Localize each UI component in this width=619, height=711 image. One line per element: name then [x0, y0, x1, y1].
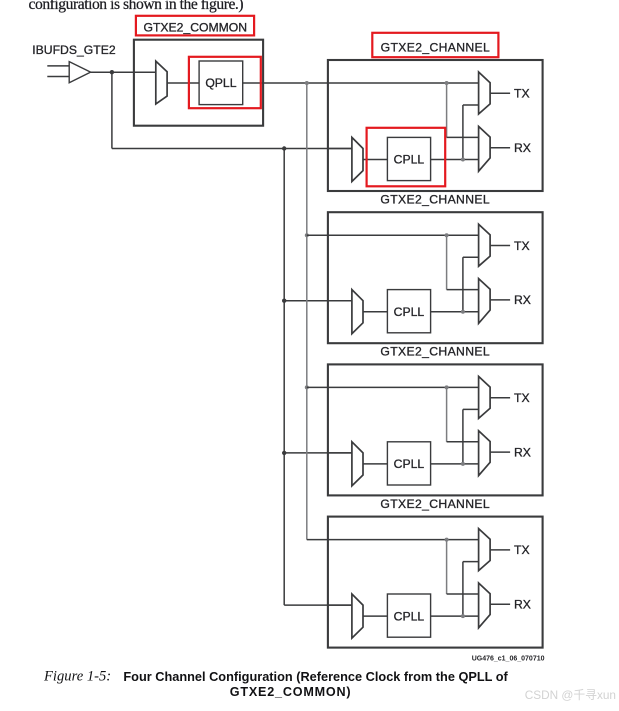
svg-text:TX: TX: [514, 391, 530, 405]
wire QPLL branch down to RX mux channel 1: [447, 83, 479, 137]
wire buffer output to GTXE2_COMMON mux: [91, 71, 156, 73]
svg-text:RX: RX: [514, 293, 531, 307]
mux CPLL input channel 2: [352, 290, 363, 334]
svg-text:CPLL: CPLL: [394, 305, 425, 319]
wire CPLL output to RX mux channel 1: [431, 159, 479, 161]
wire QPLL branch down to RX mux channel 4: [447, 540, 479, 594]
svg-text:Four Channel Configuration (Re: Four Channel Configuration (Reference Cl…: [123, 669, 508, 684]
block GTXE2_CHANNEL 2 box: [328, 212, 543, 343]
wire QPLL output to channel 1 TX mux: [243, 82, 479, 84]
wire QPLL net into channel 4: [307, 539, 479, 541]
wire CPLL reference into CPLL mux channel 3 (inside box): [328, 452, 352, 454]
svg-text:CSDN @千寻xun: CSDN @千寻xun: [525, 688, 616, 702]
junction node CPLL branch channel 1: [461, 158, 465, 162]
wire IBUFDS to channel 2 CPLL mux: [284, 300, 352, 302]
svg-text:RX: RX: [514, 598, 531, 612]
red highlight box around CPLL channel 1: [367, 128, 446, 187]
wire RX output channel 1: [490, 147, 510, 149]
wire QPLL branch down to RX mux channel 3: [447, 387, 479, 441]
block CPLL box channel 3: [387, 442, 430, 485]
caption figure number: [43, 669, 111, 685]
label RX channel 2: [514, 293, 531, 307]
junction node IBUFDS to channel 3: [282, 451, 286, 455]
wire TX output channel 1: [490, 92, 510, 94]
label RX channel 4: [514, 598, 531, 612]
wire CPLL branch up to TX mux channel 3: [463, 409, 479, 464]
wire TX output channel 2: [490, 245, 510, 247]
junction node QPLL branch in channel 2: [445, 233, 449, 237]
mux TX channel 3: [479, 376, 491, 418]
mux RX channel 2: [479, 279, 491, 324]
svg-text:GTXE2_CHANNEL: GTXE2_CHANNEL: [380, 497, 490, 511]
block CPLL box channel 4: [387, 594, 430, 637]
block GTXE2_CHANNEL 3 box: [328, 364, 543, 495]
block GTXE2_COMMON box: [134, 40, 263, 126]
caption title line 1: [123, 669, 508, 684]
wire CPLL output to RX mux channel 4: [431, 615, 479, 617]
wire IBUFDS net horizontal to channel 1 CPLL mux: [112, 148, 352, 150]
label RX channel 1: [514, 141, 531, 155]
mux TX channel 4: [479, 529, 491, 571]
label GTXE2_CHANNEL 3: [380, 345, 490, 359]
svg-text:TX: TX: [514, 239, 530, 253]
label IBUFDS_GTE2: [32, 43, 116, 57]
svg-text:GTXE2_COMMON): GTXE2_COMMON): [230, 685, 352, 699]
wire RX output channel 4: [490, 603, 510, 605]
mux RX channel 3: [479, 431, 491, 476]
label CPLL channel 2: [394, 305, 425, 319]
wire IBUFDS net vertical distribution: [283, 149, 285, 606]
red highlight box GTXE2_COMMON label: [136, 16, 254, 36]
red highlight box around QPLL: [189, 57, 261, 108]
wire CPLL branch up to TX mux channel 2: [463, 257, 479, 312]
wire CPLL output to RX mux channel 3: [431, 463, 479, 465]
junction node QPLL to channel 3: [305, 385, 309, 389]
wire CPLL reference into CPLL mux channel 2 (inside box): [328, 300, 352, 302]
svg-text:QPLL: QPLL: [205, 76, 236, 90]
label TX channel 3: [514, 391, 530, 405]
wire RX output channel 3: [490, 451, 510, 453]
label GTXE2_CHANNEL 2: [380, 192, 490, 206]
label TX channel 1: [514, 87, 530, 101]
svg-text:TX: TX: [514, 543, 530, 557]
wire CPLL reference into CPLL mux channel 4 (inside box): [328, 604, 352, 606]
wire CPLL reference into CPLL mux channel 1 (inside box): [328, 148, 352, 150]
svg-text:GTXE2_COMMON: GTXE2_COMMON: [143, 21, 247, 35]
junction node QPLL net: [305, 81, 309, 85]
wire mux to CPLL channel 2: [363, 311, 387, 313]
junction node QPLL to channel 2: [305, 233, 309, 237]
top body text: [29, 0, 244, 13]
junction node QPLL branch in channel 3: [445, 385, 449, 389]
wire QPLL net into channel 2: [307, 234, 479, 236]
label GTXE2_CHANNEL 1: [381, 40, 491, 54]
caption title line 2: [230, 685, 352, 699]
svg-text:GTXE2_CHANNEL: GTXE2_CHANNEL: [380, 345, 490, 359]
mux RX channel 1: [479, 126, 491, 171]
block CPLL box channel 1: [387, 137, 430, 180]
wire IBUFDS to channel 4 CPLL mux: [284, 604, 352, 606]
mux CPLL input channel 4: [352, 594, 363, 638]
block CPLL box channel 2: [387, 290, 430, 333]
label TX channel 4: [514, 543, 530, 557]
wire mux to CPLL channel 3: [363, 463, 387, 465]
svg-text:UG476_c1_06_070710: UG476_c1_06_070710: [472, 655, 545, 662]
wire mux to CPLL channel 4: [363, 615, 387, 617]
wire CPLL output to RX mux channel 2: [431, 311, 479, 313]
svg-text:TX: TX: [514, 87, 530, 101]
junction node CPLL branch channel 3: [461, 462, 465, 466]
label GTXE2_COMMON: [143, 21, 247, 35]
wire mux M0 to QPLL: [167, 82, 199, 84]
junction node CPLL branch channel 4: [461, 614, 465, 618]
red highlight box GTXE2_CHANNEL label: [372, 33, 498, 57]
label RX channel 3: [514, 445, 531, 459]
mux TX channel 1: [479, 72, 491, 114]
svg-text:GTXE2_CHANNEL: GTXE2_CHANNEL: [381, 40, 491, 54]
svg-text:RX: RX: [514, 445, 531, 459]
mux RX channel 4: [479, 583, 491, 628]
label CPLL channel 1: [394, 153, 425, 167]
svg-text:configuration is shown in the: configuration is shown in the ﬁgure.): [29, 0, 244, 13]
svg-text:IBUFDS_GTE2: IBUFDS_GTE2: [32, 43, 116, 57]
svg-text:CPLL: CPLL: [394, 609, 425, 623]
wire IBUFDS net vertical drop at left: [111, 72, 113, 148]
buffer U0 IBUFDS_GTE2 input stubs: [47, 66, 69, 77]
mux M0 in GTXE2_COMMON: [156, 61, 167, 104]
wire mux to CPLL channel 1: [363, 159, 387, 161]
junction node IBUFDS to channel 2: [282, 299, 286, 303]
mux CPLL input channel 3: [352, 442, 363, 486]
block GTXE2_CHANNEL 1 box: [328, 60, 543, 191]
wire RX output channel 2: [490, 299, 510, 301]
wire TX output channel 3: [490, 397, 510, 399]
label CPLL channel 4: [394, 609, 425, 623]
label QPLL: [205, 76, 236, 90]
junction node IBUFDS net branch: [282, 146, 286, 150]
wire IBUFDS to channel 3 CPLL mux: [284, 452, 352, 454]
svg-text:RX: RX: [514, 141, 531, 155]
watermark: [525, 688, 616, 702]
figure id UG476_c1_06_070710: [472, 655, 545, 662]
junction node QPLL branch in channel 1: [445, 81, 449, 85]
junction node CPLL branch channel 2: [461, 310, 465, 314]
label CPLL channel 3: [394, 457, 425, 471]
label TX channel 2: [514, 239, 530, 253]
mux CPLL input channel 1: [352, 137, 363, 181]
wire CPLL branch up to TX mux channel 1: [463, 105, 479, 160]
wire CPLL branch up to TX mux channel 4: [463, 562, 479, 617]
mux TX channel 2: [479, 224, 491, 266]
buffer U0 IBUFDS_GTE2 triangle: [69, 62, 90, 83]
svg-text:CPLL: CPLL: [394, 153, 425, 167]
block GTXE2_CHANNEL 4 box: [328, 517, 543, 648]
label GTXE2_CHANNEL 4: [380, 497, 490, 511]
svg-text:Figure 1-5:: Figure 1-5:: [43, 669, 111, 685]
wire QPLL net vertical distribution: [306, 83, 308, 540]
wire TX output channel 4: [490, 549, 510, 551]
wire QPLL branch down to RX mux channel 2: [447, 235, 479, 289]
block QPLL box U1: [199, 61, 243, 105]
junction node QPLL branch in channel 4: [445, 538, 449, 542]
svg-text:CPLL: CPLL: [394, 457, 425, 471]
svg-text:GTXE2_CHANNEL: GTXE2_CHANNEL: [380, 192, 490, 206]
junction node on IBUFDS net: [110, 70, 114, 74]
wire QPLL net into channel 3: [307, 386, 479, 388]
